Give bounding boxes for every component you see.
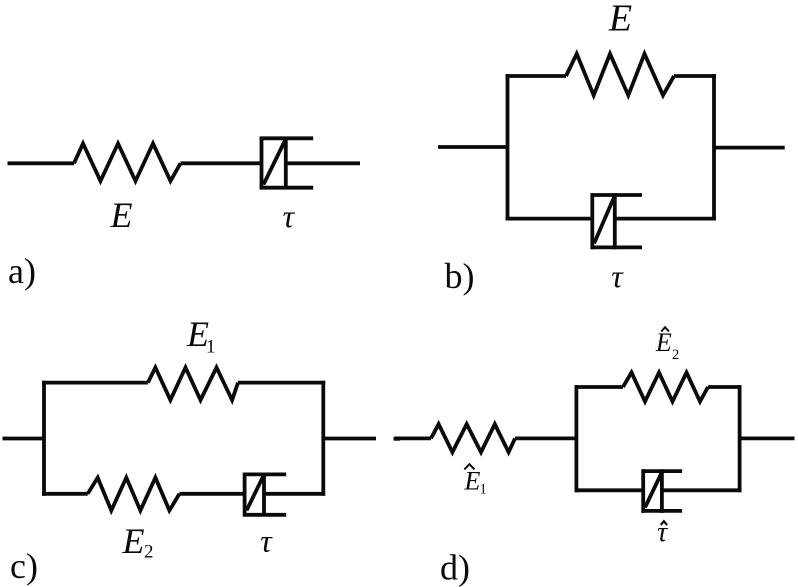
dashpot tau (model c) [243,473,286,517]
svg-text:E: E [655,328,672,357]
spring E (model b) [566,54,674,96]
svg-text:τ: τ [611,258,624,294]
spring E1-hat (model d) [431,424,515,452]
wire d top-left [575,385,624,389]
wire b right lead [714,146,785,150]
wire d bottom-left [575,488,644,492]
svg-text:c): c) [10,546,38,586]
wire a right lead [286,161,360,165]
wire c right lead [323,437,376,441]
wire c bottom-middle [179,492,244,496]
svg-text:1: 1 [480,482,487,498]
wire c left lead [3,437,45,441]
wire d top-right [708,385,742,389]
node c right vertical [321,381,325,496]
svg-text:d): d) [440,548,470,587]
wire b bottom-left [506,217,593,221]
wire d bottom-right [662,488,742,492]
wire a left lead [8,161,75,165]
wire a middle [181,161,262,165]
wire c bottom-right [264,492,325,496]
wire c top-left [42,381,148,385]
wire d middle [515,436,576,440]
svg-text:2: 2 [672,347,679,363]
node b right vertical [712,74,716,220]
wire b top-left [506,74,567,78]
svg-text:E: E [464,467,481,496]
wire b left lead [438,145,508,149]
wire d left lead [395,436,432,440]
wire stub between c and d [394,437,401,441]
wire c top-right [238,381,325,385]
wire c bottom-left [42,492,88,496]
svg-text:b): b) [445,256,475,296]
wire b bottom-right [615,217,716,221]
dashpot tau-hat (model d) [642,469,683,513]
svg-text:τ: τ [283,198,296,234]
wire d right lead [740,436,795,440]
svg-text:E: E [608,0,632,40]
spring E2-hat (model d) [623,373,708,402]
svg-text:a): a) [8,251,36,291]
spring E (model a) [74,144,181,182]
dashpot tau (model a) [260,137,314,190]
dashpot tau (model b) [591,193,643,249]
node d right vertical [738,385,742,492]
svg-text:2: 2 [144,542,154,563]
spring E1 (model c) [148,368,238,401]
node b left vertical [506,74,510,220]
node c left vertical [42,381,46,496]
svg-text:1: 1 [206,337,216,358]
svg-text:τ: τ [260,523,273,559]
svg-text:E: E [110,195,133,235]
wire b top-right [674,74,716,78]
node d left vertical [575,385,579,492]
spring E2 (model c) [88,478,180,511]
svg-text:E: E [122,521,145,561]
